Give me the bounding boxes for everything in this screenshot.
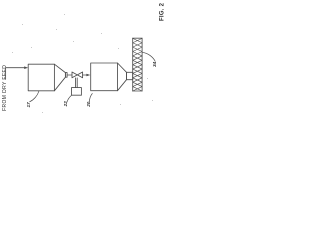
column 34 top cap — [133, 37, 142, 39]
column 34 left rail — [132, 38, 134, 91]
leader to label 20 — [89, 94, 92, 102]
column 34 right rail — [141, 38, 143, 91]
column 34 bottom cap — [133, 90, 142, 92]
svg-text:22: 22 — [63, 101, 68, 108]
label 22 — [63, 101, 68, 108]
svg-text:17: 17 — [26, 102, 31, 108]
cone of hopper 20 — [118, 63, 127, 91]
scan speckles — [12, 14, 153, 113]
wire valve to vessel 20 — [83, 74, 88, 76]
valve (bowtie) — [72, 72, 83, 78]
label 20 — [86, 101, 91, 108]
leader to label 17 — [30, 91, 39, 102]
svg-text:34: 34 — [152, 61, 157, 67]
label 34 — [152, 61, 157, 67]
arrowhead into hopper 17 — [24, 66, 28, 69]
valve stem — [76, 78, 78, 88]
label 17 — [26, 102, 31, 108]
column 34 screw zigzag A — [133, 38, 142, 91]
figure label FIG. 2 — [160, 2, 166, 21]
leader to label 22 — [67, 96, 71, 103]
vessel hopper 17 body — [28, 64, 54, 91]
svg-text:20: 20 — [86, 101, 91, 108]
vessel hopper 20 body — [91, 63, 118, 91]
arrowhead into vessel 20 — [86, 74, 90, 77]
column 34 screw zigzag B — [133, 38, 142, 91]
wire outlet of hopper 17 to valve — [67, 74, 72, 76]
cone of hopper 17 — [54, 64, 67, 91]
actuator box 22 — [72, 88, 82, 96]
svg-text:FIG. 2: FIG. 2 — [160, 2, 166, 21]
feed label FROM DRY FEED — [2, 65, 8, 111]
outlet stub into column — [127, 72, 133, 79]
wire feed pipe — [6, 68, 26, 80]
leader to label 34 — [143, 52, 156, 61]
